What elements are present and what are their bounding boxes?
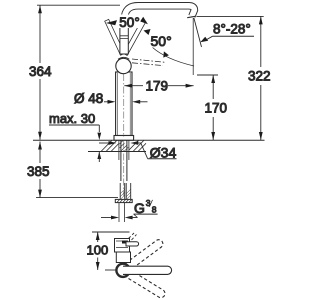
bottom extension line (spout axis) — [105, 269, 116, 271]
dashed swivel capsule down — [121, 267, 167, 299]
G3/8 dimension arrows — [101, 217, 117, 219]
dimension 385 line — [39, 142, 41, 164]
svg-text:8°-28°: 8°-28° — [213, 22, 251, 37]
svg-text:170: 170 — [205, 101, 228, 116]
50deg arc #2 with leader line — [152, 47, 194, 66]
svg-text:8: 8 — [152, 205, 157, 215]
counter top line — [33, 139, 265, 141]
svg-text:364: 364 — [29, 64, 52, 79]
label G 3/8 with underline — [134, 213, 158, 215]
plan head: upper body rectangle — [116, 252, 130, 263]
plan head: cartridge block — [115, 239, 130, 253]
supply hoses — [120, 183, 131, 199]
svg-text:100: 100 — [87, 243, 109, 258]
extension line top of outlet to 322 — [197, 15, 264, 17]
svg-text:G: G — [134, 200, 145, 216]
ball joint — [116, 58, 131, 73]
spout outlet cut edge — [187, 16, 195, 17]
counter hatching right of shank — [129, 140, 146, 151]
dimension 322 line — [260, 16, 262, 67]
top extension line (lever tip) — [92, 231, 130, 233]
plan lever boss (dark) — [122, 241, 128, 244]
50deg arc #1 with arrows — [119, 15, 141, 29]
svg-text:179: 179 — [146, 79, 169, 94]
bottom extension line for 385 — [36, 197, 118, 199]
dimension Ø34 arrows at shank — [99, 142, 114, 144]
svg-text:385: 385 — [27, 164, 50, 179]
counter bottom line — [88, 151, 146, 153]
dimension Ø48 arrows to body — [104, 101, 113, 103]
svg-text:322: 322 — [248, 69, 271, 84]
svg-text:Ø 48: Ø 48 — [74, 91, 103, 106]
label 8-28deg with underline and leader arrow — [213, 35, 254, 37]
svg-text:Ø34: Ø34 — [150, 145, 177, 161]
G3/8 extension lines — [119, 203, 125, 222]
body centerline — [123, 74, 125, 137]
dimension 179 line with arrows — [124, 85, 143, 87]
lever tilted left (thin outline) — [105, 19, 125, 55]
spray angle line 28deg — [194, 18, 202, 47]
plan circle (spout bearing) — [116, 264, 129, 277]
counter hatching left of shank — [101, 140, 119, 151]
top extension line for 364 — [37, 4, 120, 6]
dashed swivel capsule up — [121, 238, 165, 273]
plan lever arm pointing right — [126, 242, 139, 246]
shank tube below counter — [121, 140, 127, 181]
extension line for 170 — [197, 74, 218, 76]
svg-text:max. 30: max. 30 — [49, 111, 95, 126]
label Ø34 with underline and leader — [141, 144, 148, 159]
faucet body column — [116, 72, 132, 136]
spout arch tube — [124, 6, 194, 53]
water stream extension line (vertical from outlet) — [192, 18, 194, 75]
solid spout capsule — [123, 266, 172, 274]
lever vertical (solid) — [120, 26, 128, 54]
svg-text:50°: 50° — [119, 15, 139, 30]
dimension 100 line — [97, 232, 99, 242]
lever tilted right (thin outline) — [123, 20, 146, 56]
svg-text:50°: 50° — [151, 33, 172, 49]
faucet base plinth — [114, 136, 134, 141]
hose end nuts (hatched) — [115, 199, 132, 202]
dashed lever alternate position up-right — [129, 233, 137, 240]
dimension 364 line — [39, 5, 41, 63]
shank thread hatch in counter — [120, 141, 129, 152]
lever position horizontal (dash-dot) — [132, 59, 165, 62]
dimension 170 line — [212, 75, 214, 99]
